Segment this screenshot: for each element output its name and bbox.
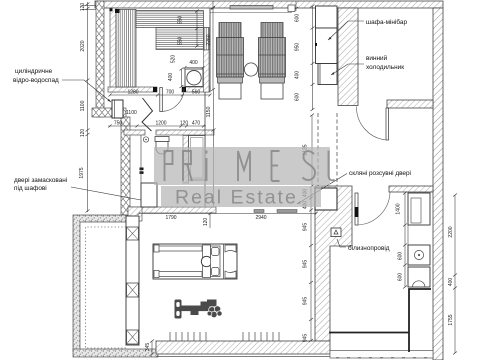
wall bath-left insulated <box>121 117 130 215</box>
dim chute + gym column <box>310 188 312 341</box>
dim row vestibule <box>108 125 206 127</box>
svg-text:1755: 1755 <box>448 314 454 325</box>
tall cabinet laundry <box>408 193 430 225</box>
wall sauna south segment A <box>108 87 157 92</box>
svg-text:400: 400 <box>295 71 301 80</box>
dim right outer <box>454 195 456 353</box>
wall sauna-left <box>110 8 117 92</box>
svg-text:шафа-мінібар: шафа-мінібар <box>366 18 407 26</box>
svg-text:120: 120 <box>180 121 189 127</box>
vent box <box>288 5 295 12</box>
svg-text:600: 600 <box>295 93 301 102</box>
wall laundry north <box>389 186 433 192</box>
wall corner join <box>128 207 142 221</box>
wall wine-room south <box>387 100 433 108</box>
sauna bench right strip <box>204 28 210 51</box>
cabinet run <box>126 216 139 345</box>
wall bath north segment B <box>156 130 214 135</box>
svg-text:520: 520 <box>171 55 177 64</box>
dim row sauna bottom <box>110 94 210 96</box>
dotted niche outline <box>86 227 127 348</box>
svg-text:945: 945 <box>303 297 309 306</box>
dim 2135 <box>311 115 313 186</box>
floor drain <box>143 137 148 142</box>
svg-text:Real Estate: Real Estate <box>175 187 298 209</box>
svg-text:945: 945 <box>303 334 309 343</box>
svg-text:2940: 2940 <box>255 215 266 221</box>
svg-text:скляні розсувні двері: скляні розсувні двері <box>349 169 411 177</box>
sauna heater <box>185 69 203 87</box>
bath east wall line <box>204 92 206 207</box>
svg-text:відро-водоспад: відро-водоспад <box>13 76 59 84</box>
laundry chute box <box>331 228 341 237</box>
svg-text:550: 550 <box>178 37 184 46</box>
sauna bench vertical planks <box>115 9 136 87</box>
svg-text:2020: 2020 <box>80 40 86 51</box>
svg-text:700: 700 <box>166 90 175 96</box>
dim heater 400 left <box>181 69 183 87</box>
svg-text:холодильник: холодильник <box>366 64 404 71</box>
svg-text:1400: 1400 <box>396 203 402 214</box>
svg-text:2200: 2200 <box>448 226 454 237</box>
svg-text:345: 345 <box>145 343 151 352</box>
laundry chute shaft <box>315 188 337 210</box>
dim 120 small below <box>209 214 211 229</box>
svg-text:560: 560 <box>192 90 201 96</box>
svg-text:400: 400 <box>168 73 174 82</box>
baseline south <box>156 356 330 358</box>
svg-text:2260: 2260 <box>206 34 212 45</box>
radiator ticks right group <box>243 332 279 341</box>
svg-text:1200: 1200 <box>155 121 166 127</box>
dimension texts <box>79 3 454 352</box>
dim 1150 / partition line <box>213 90 215 208</box>
dim sauna 550s <box>196 11 198 46</box>
lounger B <box>259 23 286 100</box>
label minibar <box>328 18 407 40</box>
dim line left 2020/1100/1975 <box>87 2 89 212</box>
sauna door leaf <box>160 88 163 112</box>
radiator ticks left group <box>170 332 206 341</box>
dryer sink <box>408 267 430 287</box>
svg-text:600: 600 <box>398 252 404 261</box>
wall laundry south <box>330 351 433 359</box>
svg-text:білизнопровід: білизнопровід <box>348 244 390 252</box>
label laundry chute <box>337 239 390 252</box>
exercise machine silhouette <box>175 300 222 318</box>
sauna door jamb posts <box>153 87 186 92</box>
svg-text:470: 470 <box>192 121 201 127</box>
wall bath north segment A <box>124 130 145 135</box>
bucket waterfall <box>112 100 123 118</box>
side table <box>244 63 257 76</box>
dim 345 <box>151 341 153 354</box>
door laundry arc <box>358 192 390 225</box>
svg-text:1790: 1790 <box>165 215 176 221</box>
vanity cabinet <box>141 183 157 207</box>
wall gym west L speckled <box>73 215 128 351</box>
svg-text:винний: винний <box>366 54 388 62</box>
folding door zigzag <box>142 98 153 131</box>
treadmill <box>153 244 237 279</box>
label glass sliding doors <box>254 169 411 213</box>
svg-text:750: 750 <box>114 121 123 127</box>
svg-text:950: 950 <box>295 43 301 52</box>
niche in top wall <box>210 6 292 13</box>
dim laundry column <box>404 193 406 287</box>
minibar box middle <box>315 28 337 64</box>
dim minibar column <box>312 6 314 110</box>
svg-text:600: 600 <box>398 273 404 282</box>
lounger A <box>217 23 244 100</box>
dim row 1790/2940 <box>139 213 316 215</box>
svg-text:120: 120 <box>80 3 86 12</box>
shower stall <box>183 136 205 184</box>
svg-text:600: 600 <box>295 14 301 23</box>
platform edge thick <box>329 289 431 352</box>
svg-text:1280: 1280 <box>127 90 138 96</box>
label bucket-waterfall <box>13 67 111 102</box>
dim tick top wall B <box>294 1 298 11</box>
dim heater 400 top <box>185 67 203 69</box>
wall bath south <box>128 207 216 213</box>
svg-text:120: 120 <box>80 129 86 138</box>
svg-text:400: 400 <box>189 60 198 66</box>
door wine-room leaf <box>386 108 389 140</box>
wall top <box>95 1 443 8</box>
toilet <box>155 137 169 155</box>
wall gym south-west speckled <box>73 349 158 357</box>
wall vestibule horizontal insulated <box>92 108 126 117</box>
door wine-room arc <box>356 107 386 141</box>
sauna bench upper tier <box>136 11 204 28</box>
svg-text:1100: 1100 <box>80 100 86 111</box>
svg-text:1150: 1150 <box>206 106 212 117</box>
wall right <box>433 8 443 360</box>
column left edge line <box>407 193 409 287</box>
wall gym south <box>156 341 330 354</box>
svg-text:1975: 1975 <box>79 167 85 178</box>
wall sauna south segment B <box>182 87 210 92</box>
wall chute column <box>315 186 352 341</box>
wall left-outer insulated <box>96 1 104 117</box>
svg-text:945: 945 <box>303 260 309 269</box>
door laundry leaf <box>355 193 359 225</box>
svg-text:циліндричне: циліндричне <box>15 67 53 75</box>
dim 2260 <box>212 8 214 90</box>
label wine fridge <box>331 54 404 75</box>
svg-text:двері замасковані: двері замасковані <box>14 176 67 184</box>
minibar box top <box>316 6 338 28</box>
sauna right wall line <box>204 8 211 92</box>
svg-text:під шафові: під шафові <box>14 184 47 192</box>
svg-text:550: 550 <box>178 16 184 25</box>
label hidden doors <box>14 176 141 200</box>
wall minibar column <box>338 8 358 106</box>
dim tick top wall A <box>211 1 215 10</box>
svg-text:400: 400 <box>448 278 454 287</box>
wine fridge box <box>318 64 337 85</box>
wall post black <box>140 168 144 174</box>
svg-text:1100: 1100 <box>126 110 137 116</box>
svg-text:945: 945 <box>303 223 309 232</box>
glass sliding door dashed lines <box>318 113 337 186</box>
sauna door arc <box>162 89 185 112</box>
washing machine <box>408 245 430 265</box>
svg-text:120: 120 <box>203 218 209 227</box>
sauna bench lower tier <box>156 28 204 50</box>
